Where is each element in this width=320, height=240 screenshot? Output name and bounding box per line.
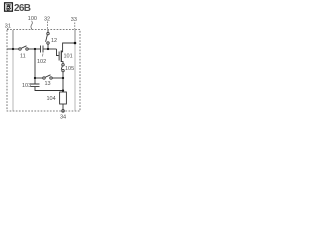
svg-text:104: 104 bbox=[47, 96, 56, 102]
svg-text:102: 102 bbox=[37, 59, 46, 65]
svg-text:26B: 26B bbox=[14, 3, 31, 14]
svg-text:105: 105 bbox=[65, 66, 74, 72]
svg-text:13: 13 bbox=[45, 81, 51, 87]
svg-text:103: 103 bbox=[22, 83, 31, 89]
svg-text:33: 33 bbox=[71, 17, 77, 23]
svg-text:101: 101 bbox=[64, 54, 73, 60]
svg-text:32: 32 bbox=[44, 16, 50, 22]
svg-text:34: 34 bbox=[60, 114, 66, 120]
svg-text:11: 11 bbox=[20, 54, 26, 60]
svg-text:100: 100 bbox=[28, 16, 37, 22]
svg-text:12: 12 bbox=[51, 38, 57, 44]
